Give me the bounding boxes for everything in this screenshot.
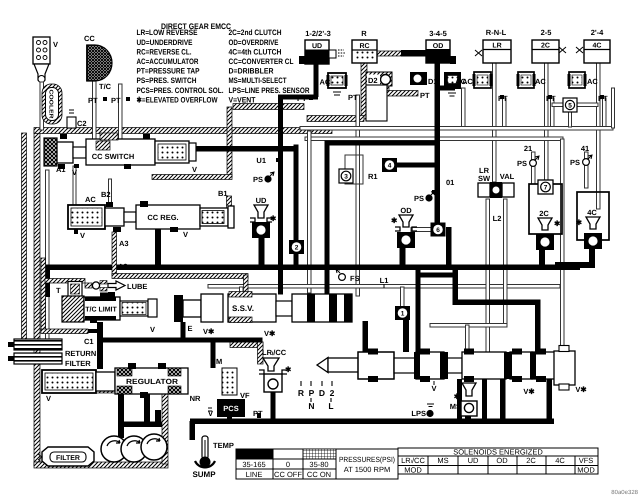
solenoid MS (450, 383, 477, 416)
wire duct x309 (308, 131, 312, 293)
svg-text:2: 2 (295, 245, 299, 252)
pressures caption box (336, 449, 398, 479)
svg-text:V: V (183, 230, 188, 239)
svg-text:2-5: 2-5 (541, 28, 552, 37)
node L1 (380, 276, 389, 288)
wire duct right AC drop (612, 88, 615, 128)
svg-text:1-2/2'-3: 1-2/2'-3 (305, 29, 331, 38)
wire duct orifice6 to OD solenoid (411, 228, 434, 232)
svg-text:T/C LIMIT: T/C LIMIT (85, 306, 117, 314)
wire hatched horizontal main y131 (34, 128, 332, 134)
valve CC SWITCH (44, 133, 197, 177)
clutch LR (475, 28, 511, 63)
accumulator AC for LR (455, 72, 508, 103)
svg-text:R: R (361, 29, 367, 38)
svg-text:CC REG.: CC REG. (147, 213, 178, 222)
pressure switch PS 41 (570, 144, 592, 167)
svg-text:FILTER: FILTER (65, 359, 91, 368)
wire duct OD AC down (462, 88, 466, 128)
svg-text:AC: AC (587, 77, 598, 86)
pressure switch PS OD (414, 191, 435, 203)
pump assembly (101, 434, 167, 462)
wire hatched y118 horizontal (307, 116, 364, 122)
wire CC switch branch horizontal y143 (327, 141, 437, 146)
svg-text:41: 41 (581, 144, 589, 153)
svg-text:SUMP: SUMP (192, 470, 216, 479)
svg-text:✱: ✱ (554, 219, 561, 228)
svg-text:7: 7 (544, 185, 548, 192)
wire hatched to LR-CC vertical (258, 342, 264, 364)
wire regulator right drop (144, 394, 150, 423)
svg-text:V: V (46, 394, 51, 403)
orifice 5 (563, 98, 577, 112)
accumulator AC for CC REG (68, 195, 105, 240)
svg-text:PT: PT (348, 93, 358, 102)
svg-text:AC: AC (455, 77, 466, 86)
svg-text:V✱: V✱ (523, 387, 535, 396)
wire 2C solenoid drop (539, 250, 545, 267)
wire duct PS 21 drop (532, 152, 536, 184)
svg-text:R-N-L: R-N-L (486, 28, 507, 37)
svg-text:VAL: VAL (500, 172, 515, 181)
wire black RC to OD link (401, 50, 427, 57)
wire UD elbow (278, 95, 318, 100)
title (161, 22, 231, 31)
svg-text:V✱: V✱ (264, 329, 276, 338)
node PT bottom (253, 409, 263, 418)
svg-text:R1: R1 (368, 172, 378, 181)
wire duct x467 to valve (466, 325, 470, 352)
wire bottom thick line (190, 419, 554, 425)
svg-text:4C: 4C (593, 43, 602, 50)
wire duct LR PT down (503, 98, 507, 128)
svg-text:LINE: LINE (246, 470, 263, 479)
svg-text:LPS: LPS (411, 409, 426, 418)
svg-text:1: 1 (401, 311, 405, 318)
wire UD clutch drop (314, 62, 319, 97)
orifice 1 (395, 306, 410, 320)
svg-text:LPS=LINE PRES. SENSOR: LPS=LINE PRES. SENSOR (229, 86, 310, 95)
svg-text:UD: UD (256, 196, 267, 205)
svg-text:2C=2nd CLUTCH: 2C=2nd CLUTCH (229, 28, 282, 37)
wire CC REG to main drop (155, 228, 161, 267)
wire duct L1 horizontal (208, 285, 560, 289)
node A2 (118, 262, 128, 271)
C2 component (67, 110, 87, 128)
filter (38, 447, 94, 466)
svg-text:A3: A3 (119, 239, 129, 248)
wire duct to orifice 1 (401, 287, 405, 307)
svg-text:4: 4 (388, 163, 392, 170)
svg-text:VF: VF (240, 391, 250, 400)
svg-text:UD: UD (312, 43, 322, 50)
svg-text:LRₗ/CC: LRₗ/CC (401, 456, 425, 465)
wire duct below orifice 5 (569, 112, 572, 127)
svg-text:CC: CC (84, 34, 95, 43)
lube dribbler (85, 281, 147, 292)
svg-text:PS: PS (570, 158, 580, 167)
svg-text:R: R (298, 388, 304, 398)
svg-text:2'-4: 2'-4 (591, 28, 604, 37)
sensor LPS (411, 404, 434, 418)
wire regulator pump drop (118, 393, 124, 438)
wire bottom line left drop (190, 421, 196, 440)
pressures table left (236, 449, 336, 479)
svg-text:MS: MS (437, 456, 448, 465)
legend column 1 (137, 28, 224, 104)
svg-text:PS: PS (253, 175, 263, 184)
accumulator AC for UD (297, 73, 348, 103)
wire valve loop left leg1 (457, 379, 462, 421)
svg-text:V: V (53, 40, 58, 49)
wire duct 2C PT down (551, 98, 555, 128)
dribbler D1 (410, 72, 438, 86)
svg-text:LUBE: LUBE (127, 282, 147, 291)
wire hatched RC to OD link (377, 51, 403, 56)
svg-text:P: P (309, 388, 315, 398)
wire duct horizontal y128 (300, 127, 613, 131)
wire duct LR SW left leg (486, 199, 490, 352)
valve MANUAL (317, 346, 587, 397)
wire duct LR SW right leg (504, 199, 508, 325)
svg-text:21: 21 (524, 144, 532, 153)
4C loop (577, 192, 609, 240)
svg-text:A2: A2 (118, 262, 128, 271)
wire x418 main to valve (416, 270, 421, 352)
svg-text:B2: B2 (101, 190, 111, 199)
svg-text:C2: C2 (77, 119, 87, 128)
svg-text:V: V (72, 168, 77, 177)
svg-text:L2: L2 (493, 214, 502, 223)
solenoid LR/CC (259, 348, 292, 392)
valve CC REG (101, 189, 234, 248)
svg-text:V: V (431, 384, 436, 393)
accumulator AC for 4C (568, 72, 609, 103)
wire valve loop right leg2 (547, 379, 553, 422)
svg-text:3: 3 (344, 174, 348, 181)
wire hatched sump top border (56, 388, 164, 393)
svg-text:PS: PS (414, 194, 424, 203)
wire SSV feed vertical x327 (325, 141, 330, 295)
wire elbow y302 (453, 300, 541, 306)
svg-text:NR: NR (190, 394, 201, 403)
wire duct left A1 down (46, 170, 50, 340)
svg-text:REGULATOR: REGULATOR (126, 377, 179, 386)
solenoid 2C (536, 209, 561, 250)
svg-text:PCS: PCS (223, 404, 238, 413)
accumulator AC for OD (444, 72, 473, 96)
svg-text:AC: AC (85, 195, 96, 204)
wire hatched A2 vertical (112, 232, 248, 294)
valve LR SW VAL (478, 166, 515, 223)
svg-text:C1: C1 (84, 337, 94, 346)
thermometer TEMP (192, 436, 233, 479)
svg-text:4C: 4C (587, 208, 597, 217)
wire hatched CC switch to UD horizontal (233, 104, 304, 110)
svg-text:0: 0 (286, 460, 290, 469)
svg-text:OD=OVERDRIVE: OD=OVERDRIVE (229, 38, 279, 47)
svg-text:4C=4th CLUTCH: 4C=4th CLUTCH (229, 47, 282, 56)
wire main line (44, 265, 580, 271)
solenoid OD (391, 206, 417, 248)
svg-text:D1: D1 (428, 77, 438, 86)
wire hatched D2 to D1 link (383, 85, 389, 93)
return filter (8, 339, 96, 368)
svg-text:MS=MULTI-SELECT: MS=MULTI-SELECT (229, 76, 287, 85)
svg-text:AC: AC (320, 78, 331, 87)
svg-text:OD: OD (433, 43, 444, 50)
wire 4C solenoid drop (589, 249, 595, 268)
valve REGULATOR (96, 357, 222, 403)
wire hatched to LR-CC horizontal (230, 342, 263, 348)
svg-text:MOD: MOD (577, 466, 595, 475)
wire orifice6 right drop (446, 227, 452, 267)
wire hatched sump bottom border (34, 462, 168, 468)
wire duct CC top (87, 45, 90, 81)
svg-text:LRₗ/CC: LRₗ/CC (262, 348, 287, 357)
svg-text:T: T (56, 286, 61, 295)
svg-text:2C: 2C (539, 209, 549, 218)
wire M drop (211, 340, 216, 368)
wire hatched B1 drop (227, 196, 232, 212)
clutch OD (420, 29, 456, 100)
svg-text:5: 5 (568, 103, 572, 110)
wire E to M horizontal (181, 338, 263, 343)
svg-text:B1: B1 (218, 189, 228, 198)
pressure switch PS 21 (517, 144, 539, 168)
wire PCS drop (227, 414, 232, 421)
svg-text:PS=PRES. SWITCH: PS=PRES. SWITCH (137, 76, 197, 85)
wire x456 below main (453, 267, 459, 305)
wire duct TC right PT (119, 84, 123, 141)
svg-text:✱: ✱ (391, 216, 398, 225)
wire OD clutch vertical (435, 62, 441, 225)
wire valve loop left leg2 (482, 379, 487, 421)
wire duct orifice5 left (552, 103, 564, 107)
svg-text:A1: A1 (56, 165, 66, 174)
wire SSV to manual valve (363, 321, 369, 352)
svg-text:✱: ✱ (454, 392, 461, 401)
wire OD AC link (437, 86, 455, 91)
svg-text:L1: L1 (380, 276, 389, 285)
cooler (42, 84, 62, 124)
pressure switch PS U1 (253, 172, 274, 184)
wire pump link step (155, 410, 161, 424)
svg-text:V✱: V✱ (575, 385, 587, 394)
wire C1 vertical (97, 322, 103, 369)
wire duct y325 jog (430, 324, 507, 328)
svg-text:VFS: VFS (579, 456, 594, 465)
wire main to TC limit (45, 267, 51, 297)
wire OD solenoid drop (400, 247, 406, 267)
flow switch FS (336, 269, 360, 283)
svg-text:01: 01 (446, 178, 454, 187)
svg-text:PRESSURES(PSI): PRESSURES(PSI) (339, 455, 395, 464)
manual valve selector labels (298, 381, 335, 411)
svg-text:V: V (208, 409, 213, 418)
svg-text:✱: ✱ (285, 365, 292, 374)
svg-text:PT: PT (88, 96, 98, 105)
svg-text:CC ON: CC ON (307, 470, 331, 479)
wire duct B2 drop (109, 179, 112, 205)
clutch 4C (576, 28, 610, 63)
regulator AC box (42, 370, 96, 403)
wire duct LR down (493, 63, 497, 182)
svg-text:V=VENT: V=VENT (229, 95, 256, 104)
svg-text:3-4-5: 3-4-5 (429, 29, 447, 38)
wire branch to orifice2 (294, 145, 299, 242)
svg-text:FS: FS (350, 274, 360, 283)
svg-text:UD: UD (468, 456, 479, 465)
svg-text:D: D (319, 388, 325, 398)
vent stack top left (33, 37, 58, 130)
svg-text:V✱: V✱ (203, 327, 215, 336)
svg-text:CC OFF: CC OFF (274, 470, 302, 479)
orifice 3 (339, 169, 378, 183)
svg-text:RC: RC (359, 43, 369, 50)
svg-text:OD: OD (400, 206, 412, 215)
svg-text:FILTER: FILTER (56, 455, 80, 462)
svg-text:PS: PS (517, 159, 527, 168)
svg-text:6: 6 (436, 227, 440, 234)
svg-text:80a0e328: 80a0e328 (611, 489, 638, 496)
wire valve loop right leg1 (500, 379, 506, 422)
svg-text:AC=ACCUMULATOR: AC=ACCUMULATOR (137, 57, 199, 66)
svg-text:LR=LOW REVERSE: LR=LOW REVERSE (137, 28, 198, 37)
wire SSV E port drop (181, 322, 186, 342)
svg-text:4C: 4C (555, 456, 565, 465)
dribbler D2 (366, 72, 392, 121)
clutch 2C (532, 28, 566, 63)
svg-text:D2: D2 (368, 76, 378, 85)
wire duct orifice5 right (577, 103, 598, 107)
orifice 7 and 2C loop (529, 180, 562, 234)
svg-text:CC SWITCH: CC SWITCH (92, 152, 135, 161)
wire duct 2C down (545, 63, 549, 181)
wire hatched CC switch vertical (227, 107, 232, 177)
torque converter T/C (84, 34, 130, 105)
watermark (611, 489, 638, 496)
wire branch CC switch to orifice2 elbow (192, 146, 298, 152)
wire duct 4C down (597, 63, 601, 209)
wire hatched left outer vertical (22, 133, 27, 348)
orifice 6 (431, 223, 446, 237)
legend column 2 (229, 28, 310, 104)
svg-text:S.S.V.: S.S.V. (232, 304, 254, 313)
wire y274 link (418, 273, 458, 278)
svg-text:LR: LR (492, 43, 501, 50)
valve T/C LIMIT (56, 282, 157, 347)
clutch UD (299, 29, 346, 64)
svg-text:U1: U1 (256, 156, 266, 165)
svg-text:D=DRIBBLER: D=DRIBBLER (229, 67, 274, 76)
svg-text:TEMP: TEMP (213, 441, 234, 450)
svg-text:V: V (192, 165, 197, 174)
svg-text:UD=UNDERDRIVE: UD=UNDERDRIVE (137, 38, 193, 47)
svg-text:✱: ✱ (270, 214, 277, 223)
wire duct right drop x562 (561, 139, 565, 352)
svg-text:✱: ✱ (576, 218, 583, 227)
svg-text:✱=ELEVATED OVERFLOW: ✱=ELEVATED OVERFLOW (137, 95, 219, 104)
wire orifice1 to valve (403, 318, 409, 352)
node U1 (256, 156, 280, 165)
wire x537 to valve (535, 300, 541, 353)
wire hatched TC enclosure (41, 258, 102, 334)
svg-text:AC: AC (535, 77, 546, 86)
svg-text:CC=CONVERTER CL: CC=CONVERTER CL (229, 57, 294, 66)
solenoid 4C (576, 208, 602, 249)
wire duct PS 41 drop (585, 152, 589, 188)
svg-text:PCS=PRES. CONTROL SOL.: PCS=PRES. CONTROL SOL. (137, 86, 224, 95)
svg-text:2C: 2C (541, 43, 550, 50)
restrictor loop R1 (345, 155, 363, 184)
svg-text:E: E (188, 324, 193, 333)
svg-text:MOD: MOD (404, 466, 422, 475)
svg-text:T/C: T/C (99, 82, 112, 91)
svg-text:COOLER: COOLER (48, 90, 54, 119)
wire orifice4 stub (396, 163, 436, 168)
valve S.S.V. (174, 292, 352, 339)
wire duct 4C PT down (603, 98, 607, 128)
svg-text:V: V (150, 325, 155, 334)
svg-text:N: N (308, 401, 314, 411)
solenoid UD (250, 196, 277, 238)
wire pump link horizontal (118, 422, 162, 428)
svg-text:PT: PT (297, 94, 307, 103)
svg-text:RC=REVERSE CL.: RC=REVERSE CL. (137, 47, 192, 56)
svg-text:PT=PRESSURE TAP: PT=PRESSURE TAP (137, 67, 200, 76)
wire hatched RC down vertical (361, 63, 367, 119)
wire hatched CC switch horizontal y177 (152, 175, 232, 180)
svg-text:RETURN: RETURN (65, 349, 96, 358)
wire duct TC left PT (93, 80, 97, 141)
wire UD feed vertical (278, 95, 283, 295)
solenoids energized table (398, 448, 598, 475)
svg-text:AT 1500 RPM: AT 1500 RPM (344, 465, 390, 474)
wire UD solenoid drop (259, 238, 265, 266)
wire duct V port to AC (73, 166, 76, 205)
svg-text:SW: SW (478, 174, 491, 183)
node 01 (432, 178, 454, 194)
svg-text:35-165: 35-165 (242, 460, 265, 469)
svg-text:2: 2 (330, 388, 335, 398)
wire C1 horizontal (97, 338, 182, 343)
wire MS solenoid drop (465, 411, 471, 421)
accumulator AC for 2C (517, 72, 557, 103)
svg-text:OD: OD (496, 456, 508, 465)
wire duct RC pressure down (356, 95, 360, 296)
wire hatched sump right border (162, 390, 168, 464)
orifice 4 (382, 158, 397, 172)
svg-text:PT: PT (111, 96, 121, 105)
wire 4C solenoid to main (555, 262, 592, 268)
wire LR-CC solenoid drop (271, 391, 276, 421)
clutch RC (348, 29, 377, 102)
node C small (331, 51, 335, 57)
svg-text:M: M (216, 357, 222, 366)
wire hatched left main vertical (34, 130, 40, 466)
solenoid PCS and VF (208, 368, 250, 418)
svg-text:PT: PT (420, 91, 430, 100)
wire orifice2 to main (294, 252, 299, 267)
wire duct horizontal y138 (305, 137, 563, 141)
svg-text:V: V (80, 231, 85, 240)
svg-text:35-80: 35-80 (309, 460, 328, 469)
svg-text:2C: 2C (526, 456, 536, 465)
svg-text:MS: MS (450, 402, 461, 411)
orifice 2 (289, 240, 304, 254)
svg-text:L: L (328, 401, 333, 411)
